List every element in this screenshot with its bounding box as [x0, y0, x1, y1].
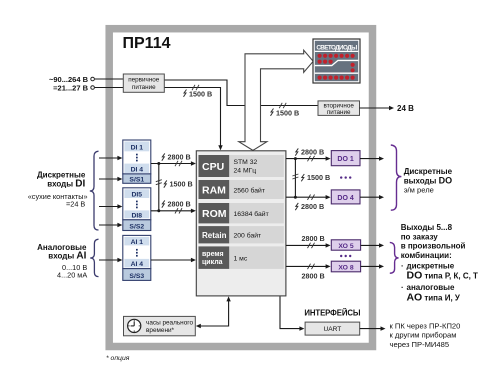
row CPU [199, 155, 230, 177]
svg-text:4...20 мА: 4...20 мА [57, 271, 87, 280]
svg-text:AI 4: AI 4 [131, 261, 144, 268]
svg-text:2800 В: 2800 В [302, 234, 325, 243]
svg-text:16384 байт: 16384 байт [234, 210, 269, 218]
svg-text:DO типа Р, К, С, Т: DO типа Р, К, С, Т [407, 270, 479, 282]
label 1500 В (DI link) [164, 180, 167, 187]
XO5 box [331, 240, 360, 250]
svg-text:ПР114: ПР114 [123, 35, 171, 52]
svg-text:=24 В: =24 В [66, 200, 85, 209]
input arrow AI [99, 259, 118, 261]
svg-text:·: · [401, 262, 404, 271]
svg-text:CPU: CPU [202, 161, 224, 173]
svg-text:к другим приборам: к другим приборам [390, 331, 457, 340]
dots between XO boxes [340, 255, 351, 257]
svg-text:1 мс: 1 мс [234, 255, 248, 262]
svg-text:э/м реле: э/м реле [404, 186, 434, 195]
left brace DI [90, 151, 99, 230]
wire DI1 group to CPU [151, 163, 192, 165]
stepped divider line [315, 60, 358, 65]
svg-text:STM 32: STM 32 [234, 159, 258, 166]
vertical link between DO wires [294, 159, 296, 198]
svg-text:24 В: 24 В [397, 104, 414, 113]
svg-text:RAM: RAM [202, 185, 226, 197]
svg-text:через ПР-МИ485: через ПР-МИ485 [390, 340, 450, 349]
svg-text:к ПК через ПР-КП20: к ПК через ПР-КП20 [390, 322, 461, 331]
terminal input 1 [91, 77, 95, 81]
label 2800 В (DO4) [295, 203, 298, 210]
UART box [305, 322, 360, 335]
svg-text:S/S3: S/S3 [129, 273, 144, 280]
wire primary power to CPU [164, 88, 220, 146]
svg-text:питание: питание [327, 109, 351, 116]
svg-text:S/S1: S/S1 [129, 177, 144, 184]
dots between DO boxes [340, 176, 351, 178]
isolation mark on DO link [292, 174, 298, 179]
CPU block [196, 151, 286, 296]
wire clock to CPU [201, 301, 229, 327]
svg-text:входы AI: входы AI [48, 251, 86, 262]
wire CPU to DO4 [286, 196, 326, 198]
svg-text:=21...27 В: =21...27 В [53, 84, 88, 93]
svg-text:DI8: DI8 [132, 212, 143, 219]
svg-text:UART: UART [323, 326, 341, 333]
output arrow XO8 [361, 265, 379, 267]
arrowhead into UART [299, 326, 304, 330]
DO4 box [331, 190, 360, 204]
svg-text:1500 В: 1500 В [170, 179, 193, 188]
svg-text:входы DI: входы DI [47, 178, 85, 189]
svg-text:1500 В: 1500 В [307, 173, 330, 182]
wire CPU to XO8 [286, 265, 326, 267]
wire DI2 group to CPU [151, 210, 192, 212]
svg-text:питание: питание [132, 84, 156, 91]
terminal input 2 [91, 86, 95, 90]
wire secondary power to 24V output [360, 107, 390, 109]
svg-text:2560 байт: 2560 байт [234, 187, 265, 195]
svg-text:200 байт: 200 байт [234, 232, 262, 240]
output arrow DO1 [360, 158, 379, 160]
lightning 1500 В label (CPU power) [184, 90, 187, 97]
svg-text:2800 В: 2800 В [168, 153, 191, 162]
svg-text:2800 В: 2800 В [301, 202, 324, 211]
svg-text:ИНТЕРФЕЙСЫ: ИНТЕРФЕЙСЫ [304, 308, 360, 317]
LED bottom row [318, 76, 355, 80]
svg-text:2800 В: 2800 В [301, 148, 324, 157]
wire UART output [360, 328, 381, 330]
right brace XO [390, 242, 399, 273]
input arrows DI2 group [99, 206, 118, 208]
device frame [109, 29, 372, 347]
secondary power box [318, 101, 360, 116]
svg-text:часы реального: часы реального [146, 320, 193, 327]
svg-text:1500 В: 1500 В [276, 109, 299, 118]
svg-text:2800 В: 2800 В [302, 272, 325, 281]
primary power box [123, 74, 164, 92]
DI group 1 box [123, 140, 151, 184]
svg-text:AI 1: AI 1 [131, 239, 144, 246]
svg-text:аналоговые: аналоговые [407, 283, 455, 292]
real-time clock box [124, 316, 196, 335]
svg-text:DI 4: DI 4 [131, 166, 144, 173]
arrowhead into CPU top [218, 145, 222, 150]
divider line 2 [315, 72, 358, 74]
row RAM [199, 180, 230, 199]
LED right column [351, 63, 355, 67]
svg-text:Retain: Retain [202, 231, 227, 240]
wire CPU to DO1 [286, 158, 326, 160]
input arrows DI1 group [99, 157, 118, 159]
svg-text:DO 1: DO 1 [337, 156, 353, 163]
output arrow XO5 [361, 244, 379, 246]
svg-text:DO 4: DO 4 [337, 195, 353, 202]
wire CPU to UART [280, 296, 300, 328]
svg-text:2800 В: 2800 В [168, 200, 191, 209]
svg-text:по заказу: по заказу [401, 232, 439, 241]
isolation slash on secondary power wire [279, 103, 286, 108]
svg-text:* опция: * опция [106, 355, 130, 362]
svg-text:в произвольной: в произвольной [401, 242, 466, 251]
row ROM [199, 203, 230, 223]
svg-text:времени*: времени* [146, 327, 175, 334]
isolation slash on CPU power wire [192, 85, 199, 90]
output arrow DO4 [360, 196, 379, 198]
label 2800 В (DI1) [162, 153, 165, 160]
svg-text:первичное: первичное [128, 77, 160, 84]
wire primary power to secondary power [164, 80, 318, 106]
DI group 2 box [123, 188, 151, 231]
wire AI to CPU [151, 259, 192, 261]
LED indicators box [313, 39, 360, 83]
wire CPU to XO5 [286, 244, 326, 246]
label 2800 В (DO1) [295, 148, 298, 155]
left brace AI [90, 239, 98, 276]
LED row 2 [318, 60, 333, 64]
lightning 1500 В label (secondary power) [271, 109, 274, 116]
svg-text:цикла: цикла [202, 259, 223, 266]
right brace DO [391, 145, 402, 210]
svg-text:ROM: ROM [202, 208, 227, 220]
svg-text:S/S2: S/S2 [129, 223, 144, 230]
row Retain [199, 226, 230, 243]
AI box [123, 235, 151, 280]
wire input1 to primary power [95, 78, 124, 80]
svg-text:·: · [401, 283, 404, 292]
vertical link between DI wires [158, 164, 160, 211]
DO1 box [331, 151, 360, 166]
arrowhead 24V [389, 106, 394, 110]
svg-text:DI 1: DI 1 [131, 144, 144, 151]
svg-text:АО типа И, У: АО типа И, У [407, 292, 461, 304]
svg-text:1500 В: 1500 В [189, 90, 212, 99]
XO8 box [331, 261, 360, 272]
svg-text:ХО 8: ХО 8 [338, 265, 354, 272]
label 1500 В (DO link) [301, 174, 304, 181]
isolation mark on DI link [156, 180, 162, 185]
svg-text:24 МГц: 24 МГц [234, 168, 257, 175]
svg-text:время: время [202, 251, 224, 258]
wire input2 to primary power [95, 87, 124, 89]
label 2800 В (DI2) [162, 200, 165, 207]
hollow arrow CPU-LED bus [239, 50, 313, 150]
svg-text:СВЕТОДИОДЫ: СВЕТОДИОДЫ [316, 44, 357, 51]
LED row 1 [318, 54, 355, 58]
svg-text:комбинации:: комбинации: [401, 251, 452, 260]
svg-text:выходы DO: выходы DO [404, 175, 452, 185]
row cycle time [199, 246, 230, 269]
svg-text:ХО 5: ХО 5 [338, 243, 354, 250]
arrowhead into clock box [196, 324, 201, 328]
arrowhead into CPU bottom [226, 296, 230, 301]
svg-text:Выходы 5...8: Выходы 5...8 [401, 223, 453, 232]
svg-text:DI5: DI5 [132, 191, 143, 198]
